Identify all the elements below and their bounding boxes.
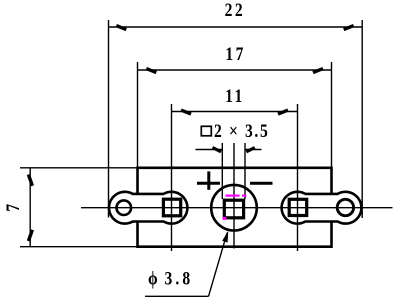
body bottom edge — [138, 245, 332, 248]
svg-text:11: 11 — [225, 86, 245, 107]
body left edge lower segment — [136, 222, 139, 249]
body right edge upper segment — [330, 167, 333, 194]
dimension 7 tick top — [28, 175, 32, 186]
left square terminal hole — [163, 199, 180, 216]
horizontal centerline — [81, 207, 393, 209]
svg-text:22: 22 — [225, 0, 245, 20]
left mounting tab (bone shape) — [109, 192, 187, 224]
body top edge — [138, 167, 332, 170]
dimension 11 extension centerline left — [171, 104, 173, 251]
right tab round hole — [337, 199, 353, 215]
dimension 22 line — [109, 26, 363, 28]
left tab round hole — [117, 200, 132, 215]
dimension 17 tick right — [313, 69, 323, 73]
body outline rectangle — [138, 167, 332, 249]
dimension 22 tick left — [116, 26, 126, 30]
dimension 7 line — [29, 168, 31, 247]
svg-text:2 × 3.5: 2 × 3.5 — [214, 120, 269, 141]
vertical centerline of center boss — [233, 143, 235, 249]
phi 3.8 leader diagonal segment — [209, 233, 228, 297]
svg-text:7: 7 — [3, 204, 24, 212]
dimension 2 extension line right — [244, 143, 246, 199]
dimension 2 tail line left — [196, 149, 223, 151]
magenta highlight dashes above center square — [226, 195, 247, 197]
svg-text:ϕ: ϕ — [148, 268, 158, 289]
phi 3.8 leader arrowhead — [222, 231, 228, 243]
dimension 2 tick left — [213, 148, 222, 152]
dimension 17 extension line left — [137, 62, 139, 168]
dimension 11 tick right — [278, 110, 288, 114]
magenta highlight mark at square lower-left corner — [223, 217, 227, 220]
dimension 7 tick bottom — [28, 230, 32, 241]
dimension 2 extension line left — [221, 143, 223, 199]
phi 3.8 leader horizontal segment — [145, 295, 209, 297]
dimension 11 extension centerline right — [297, 104, 299, 251]
minus symbol — [250, 182, 273, 185]
dimension square-2x3.5 box glyph — [201, 126, 211, 136]
right square terminal hole — [289, 199, 307, 215]
dimension 22 tick right — [344, 26, 354, 30]
dimension 22 extension line right — [361, 20, 363, 218]
center boss circle (phi 3.8 hole) — [211, 185, 257, 231]
dimension 2 tail line right — [245, 149, 262, 151]
center square terminal hole — [224, 200, 243, 218]
dimension 11 line — [172, 111, 298, 113]
dimension 17 extension line right — [331, 62, 333, 168]
dimension 7 extension line top — [20, 167, 138, 169]
right mounting tab (bone shape) — [282, 192, 362, 224]
dimension 17 tick left — [146, 69, 156, 73]
dimension 7 extension line bottom — [20, 246, 138, 248]
dimension 17 line — [138, 69, 332, 71]
svg-text:3.8: 3.8 — [165, 268, 194, 289]
svg-text:17: 17 — [225, 43, 245, 64]
body left edge upper segment — [136, 167, 139, 194]
dimension 11 tick left — [181, 110, 191, 114]
body right edge lower segment — [330, 222, 333, 249]
plus symbol — [197, 171, 220, 189]
dimension 22 extension line left — [108, 20, 110, 218]
dimension 2 tick right — [246, 148, 255, 152]
